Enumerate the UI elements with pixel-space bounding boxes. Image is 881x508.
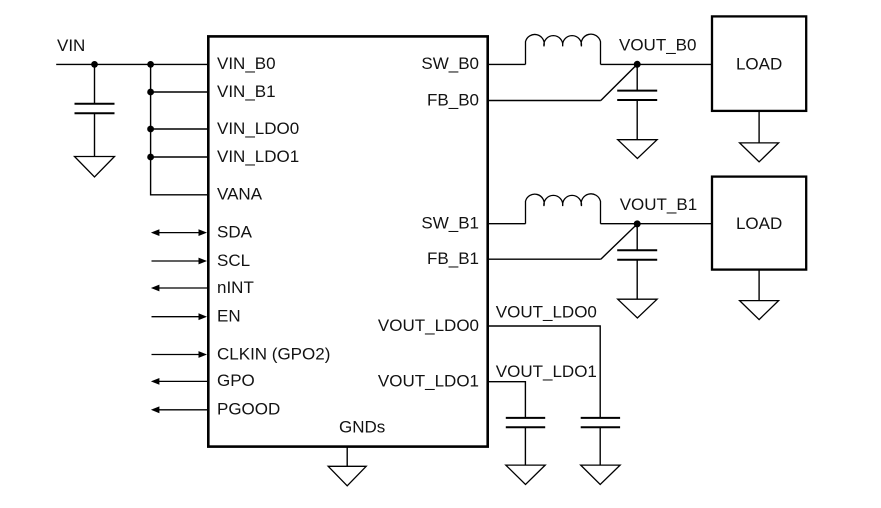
svg-text:FB_B0: FB_B0 — [427, 90, 479, 109]
wire VOUT_LDO1 — [488, 382, 525, 418]
ground under C_LDO0 — [581, 465, 620, 484]
ground under LOAD1 — [740, 143, 779, 162]
svg-text:VIN_B1: VIN_B1 — [217, 82, 276, 101]
svg-text:VOUT_B0: VOUT_B0 — [619, 35, 696, 54]
svg-text:VIN: VIN — [57, 36, 85, 55]
inductor L2 — [526, 194, 601, 224]
junction dot VIN_B1 — [147, 89, 154, 96]
wire SW_B1 — [488, 223, 526, 225]
svg-text:VOUT_LDO0: VOUT_LDO0 — [378, 316, 479, 335]
svg-text:SCL: SCL — [217, 251, 250, 270]
wire FB_B0 diagonal — [601, 65, 636, 100]
wire LOAD2 to ground — [758, 270, 760, 301]
arrow nINT output — [151, 285, 207, 292]
wire branch VIN_LDO1 — [151, 156, 208, 158]
svg-text:PGOOD: PGOOD — [217, 400, 280, 419]
svg-text:EN: EN — [217, 307, 241, 326]
IC U1 body — [208, 36, 487, 446]
arrow PGOOD output — [151, 406, 207, 413]
ground GNDs — [328, 466, 366, 486]
wire SW_B0 — [488, 63, 526, 65]
svg-text:nINT: nINT — [217, 278, 254, 297]
capacitor C_B1 — [617, 224, 657, 299]
svg-text:VANA: VANA — [217, 185, 263, 204]
node VOUT_B0 junction dot — [634, 61, 641, 68]
junction dot VIN_LDO0 — [147, 126, 154, 133]
capacitor C_LDO0 — [581, 418, 620, 465]
svg-text:CLKIN (GPO2): CLKIN (GPO2) — [217, 344, 330, 363]
wire VOUT_LDO0 — [488, 326, 600, 418]
load block LOAD1 — [712, 16, 806, 111]
node VOUT_B1 junction dot — [634, 220, 641, 227]
wire FB_B0 — [488, 100, 601, 102]
svg-text:SW_B0: SW_B0 — [421, 54, 479, 73]
capacitor C_VIN — [75, 64, 115, 156]
svg-text:SDA: SDA — [217, 222, 253, 241]
ground under C_VIN — [75, 157, 115, 178]
capacitor C_B0 — [617, 64, 657, 139]
arrow EN input — [152, 313, 208, 320]
svg-text:VIN_LDO1: VIN_LDO1 — [217, 147, 299, 166]
svg-text:VOUT_LDO0: VOUT_LDO0 — [496, 303, 597, 322]
capacitor C_LDO1 — [506, 418, 545, 465]
arrow CLKIN input — [152, 351, 208, 358]
svg-text:GPO: GPO — [217, 371, 255, 390]
wire branch VIN_B1 — [151, 91, 208, 93]
svg-text:GNDs: GNDs — [339, 418, 385, 437]
wire L2 to LOAD — [601, 223, 713, 225]
svg-text:LOAD: LOAD — [736, 214, 782, 233]
svg-text:SW_B1: SW_B1 — [421, 214, 479, 233]
junction dot VIN_LDO1 — [147, 154, 154, 161]
load block LOAD2 — [712, 177, 806, 270]
junction dot at VIN bus top — [147, 61, 154, 68]
arrow SDA bidirectional — [151, 229, 207, 236]
wire GNDs — [346, 447, 348, 467]
svg-text:FB_B1: FB_B1 — [427, 249, 479, 268]
ground under C_LDO1 — [506, 465, 545, 484]
svg-text:VIN_LDO0: VIN_LDO0 — [217, 119, 299, 138]
svg-text:VOUT_B1: VOUT_B1 — [620, 195, 697, 214]
svg-text:VOUT_LDO1: VOUT_LDO1 — [378, 372, 479, 391]
inductor L1 — [526, 34, 601, 64]
wire FB_B1 — [488, 258, 601, 260]
ground under LOAD2 — [740, 301, 779, 320]
ground under C_B1 — [618, 299, 657, 318]
wire FB_B1 diagonal — [601, 225, 636, 259]
junction dot at VIN cap — [91, 61, 98, 68]
wire VIN bus vertical — [151, 64, 208, 194]
arrow SCL input — [152, 258, 208, 265]
arrow GPO output — [151, 378, 207, 385]
ground under C_B0 — [618, 140, 657, 159]
svg-text:VIN_B0: VIN_B0 — [217, 54, 276, 73]
svg-text:LOAD: LOAD — [736, 55, 782, 74]
wire LOAD1 to ground — [758, 111, 760, 143]
wire branch VIN_LDO0 — [151, 128, 208, 130]
wire VIN input — [56, 63, 208, 65]
wire L1 to LOAD — [601, 63, 713, 65]
svg-text:VOUT_LDO1: VOUT_LDO1 — [496, 362, 597, 381]
